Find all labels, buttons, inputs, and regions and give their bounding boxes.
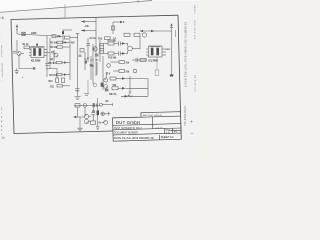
svg-text:OUT: OUT xyxy=(166,49,171,51)
svg-text:AMP TEST CIRCUIT: AMP TEST CIRCUIT xyxy=(143,114,163,117)
svg-text:v 1.7: v 1.7 xyxy=(156,126,163,130)
svg-text:R8 4k7: R8 4k7 xyxy=(49,62,57,65)
svg-text:R6 10k: R6 10k xyxy=(50,47,58,49)
svg-text:56k 1%: 56k 1% xyxy=(109,94,117,96)
svg-text:C2 1u: C2 1u xyxy=(90,37,97,40)
svg-text:ICL7650: ICL7650 xyxy=(31,59,41,63)
svg-text:⌐1: ⌐1 xyxy=(0,16,4,20)
svg-text:DUT GmbH: DUT GmbH xyxy=(116,120,140,125)
svg-text:R14 56k: R14 56k xyxy=(108,39,117,42)
svg-text:R1 1k: R1 1k xyxy=(23,44,30,46)
svg-text:1a: 1a xyxy=(2,136,6,140)
svg-text:DOCUMENT NUMBER:: DOCUMENT NUMBER: xyxy=(114,133,139,135)
svg-text:A4-SIZE-210: A4-SIZE-210 xyxy=(193,75,196,92)
svg-text:CONFIDENTIAL: CONFIDENTIAL xyxy=(183,106,186,127)
svg-text:DOC-2016-113: DOC-2016-113 xyxy=(193,20,195,40)
svg-text:TEST SCHEMATIC NO.2: TEST SCHEMATIC NO.2 xyxy=(114,127,142,130)
svg-text:PAGE1: PAGE1 xyxy=(193,5,196,15)
svg-text:R5 10k: R5 10k xyxy=(50,43,58,45)
svg-text:120R: 120R xyxy=(31,33,37,35)
svg-text:R15 56k: R15 56k xyxy=(108,57,117,59)
svg-text:SCHEMATIC-DUT-GMBH-2016-TEST-N: SCHEMATIC-DUT-GMBH-2016-TEST-NO2-REV17 xyxy=(184,22,187,88)
svg-text:DATE 03-JUL-2016 DRAWN JD: DATE 03-JUL-2016 DRAWN JD xyxy=(114,136,154,140)
svg-text:SHEET 1/1: SHEET 1/1 xyxy=(161,135,174,139)
